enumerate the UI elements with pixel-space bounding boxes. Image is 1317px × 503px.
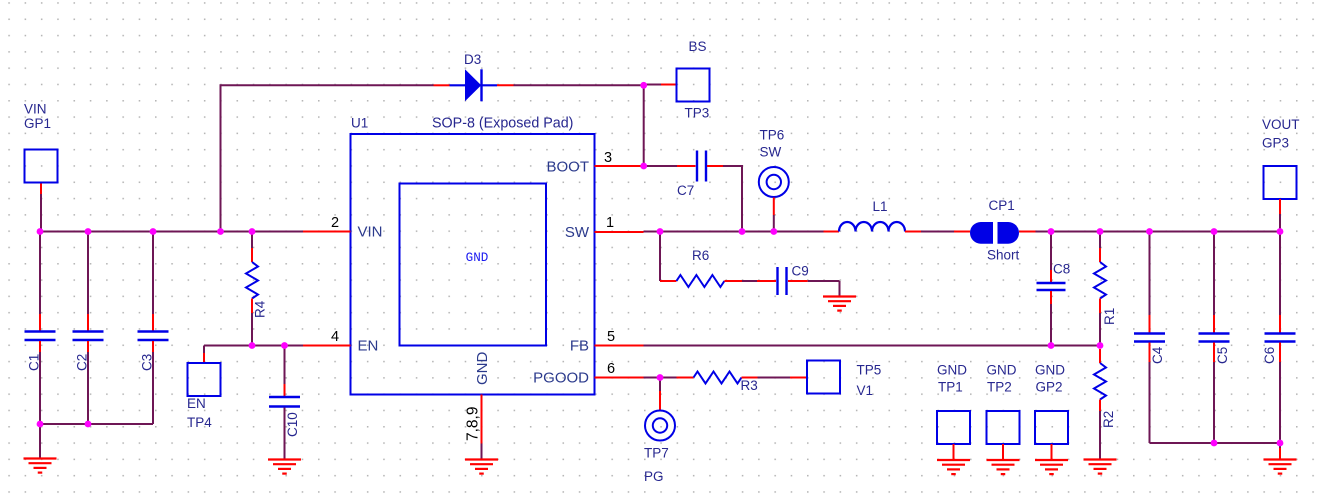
ground under GP2 — [1035, 460, 1068, 474]
svg-text:PG: PG — [644, 469, 664, 484]
diode D3 — [434, 84, 450, 86]
svg-text:C8: C8 — [1053, 262, 1070, 277]
op-amp U1 SOP-8 body — [351, 134, 595, 395]
svg-text:R4: R4 — [253, 300, 268, 318]
svg-text:GP1: GP1 — [24, 116, 51, 131]
svg-text:SOP-8 (Exposed Pad): SOP-8 (Exposed Pad) — [432, 116, 573, 132]
svg-text:VIN: VIN — [24, 102, 47, 117]
svg-text:L1: L1 — [873, 199, 888, 214]
wire L1 to CP1 — [921, 231, 954, 233]
svg-text:C5: C5 — [1215, 347, 1230, 364]
svg-text:6: 6 — [607, 361, 615, 377]
resistor R1 — [1099, 232, 1101, 249]
svg-text:TP7: TP7 — [644, 446, 669, 461]
svg-text:C1: C1 — [27, 354, 42, 371]
junction dots EN net — [249, 342, 256, 349]
svg-text:VIN: VIN — [358, 224, 383, 241]
wire to ground — [39, 424, 41, 459]
junction dots VIN bus — [37, 228, 44, 235]
junction dots SW net — [657, 228, 664, 235]
ground under TP2 — [987, 460, 1020, 474]
svg-text:GND: GND — [474, 352, 491, 386]
svg-text:C2: C2 — [75, 354, 90, 371]
U1 pin 5 FB — [595, 345, 644, 347]
wire VIN bus — [40, 231, 303, 233]
svg-text:4: 4 — [331, 329, 339, 345]
svg-text:V1: V1 — [857, 383, 874, 398]
svg-text:U1: U1 — [351, 116, 368, 131]
wire R3 to TP5 — [758, 377, 791, 379]
svg-text:2: 2 — [331, 215, 339, 231]
svg-text:C9: C9 — [792, 264, 809, 279]
testpoint TP5 — [790, 377, 807, 379]
svg-text:C6: C6 — [1262, 347, 1277, 364]
svg-text:TP2: TP2 — [987, 380, 1012, 395]
junction BOOT node — [640, 163, 647, 170]
wire C7 to SW — [741, 165, 743, 232]
svg-text:PGOOD: PGOOD — [533, 370, 589, 387]
svg-text:1: 1 — [606, 215, 614, 231]
U1 pin 6 PGOOD — [595, 377, 644, 379]
ground under R2 — [1084, 460, 1117, 474]
svg-text:GND: GND — [1035, 363, 1065, 378]
svg-text:BS: BS — [689, 39, 707, 54]
junction dots C1 C2 bottom — [37, 421, 44, 428]
svg-text:VOUT: VOUT — [1262, 117, 1300, 132]
svg-text:GP2: GP2 — [1036, 380, 1063, 395]
svg-text:C10: C10 — [285, 412, 300, 437]
svg-text:SW: SW — [565, 224, 590, 241]
wire PGOOD net — [644, 377, 677, 379]
ground under TP1 — [937, 460, 970, 474]
svg-text:BOOT: BOOT — [546, 159, 589, 176]
wire SW net — [644, 231, 824, 233]
svg-text:R6: R6 — [692, 248, 709, 263]
capacitor C8 — [1050, 232, 1052, 271]
svg-text:Short: Short — [987, 248, 1020, 263]
jumper CP1 — [954, 231, 970, 233]
capacitor C5 — [1213, 232, 1215, 316]
ground under U1 — [465, 460, 498, 474]
testpoint TP7 — [659, 378, 661, 392]
U1 exposed pad box — [400, 184, 547, 346]
wire FB net — [644, 345, 1101, 347]
svg-text:TP6: TP6 — [760, 128, 785, 143]
capacitor C10 — [284, 346, 286, 385]
capacitor C1 — [39, 232, 41, 315]
wire D3 to BS junction — [514, 84, 644, 86]
wire BS junction to TP3 — [644, 84, 661, 86]
junction dots FB net — [1048, 342, 1055, 349]
wire VOUT bus — [1036, 231, 1281, 233]
svg-text:CP1: CP1 — [989, 198, 1015, 213]
capacitor C9 — [757, 280, 776, 282]
wire top rail to D3 — [220, 84, 434, 86]
svg-text:R1: R1 — [1102, 308, 1117, 325]
svg-text:GND: GND — [466, 251, 489, 265]
svg-text:7,8,9: 7,8,9 — [465, 407, 482, 441]
ground under C6 — [1264, 460, 1297, 474]
svg-text:5: 5 — [607, 329, 615, 345]
capacitor C6 — [1279, 232, 1281, 316]
U1 GND pin 7,8,9 — [481, 395, 483, 444]
resistor R2 — [1099, 349, 1101, 363]
svg-text:EN: EN — [187, 396, 206, 411]
pin stub TP3 — [661, 84, 677, 86]
resistor R3 — [677, 377, 694, 379]
U1 pin 1 SW — [595, 231, 644, 233]
capacitor C2 — [87, 232, 89, 315]
U1 pin 2 VIN — [303, 231, 351, 233]
junction PGOOD node — [657, 374, 664, 381]
wire to ground — [1279, 443, 1281, 448]
svg-text:TP1: TP1 — [938, 380, 963, 395]
U1 pin 4 EN — [303, 345, 351, 347]
junction dots VOUT bus — [1048, 228, 1055, 235]
ground under C9 — [823, 297, 856, 311]
capacitor C4 — [1149, 232, 1151, 316]
svg-text:C3: C3 — [140, 354, 155, 371]
ground under C10 — [268, 460, 301, 474]
wire R6 to C9 — [742, 280, 757, 282]
wire C9 to ground — [808, 280, 840, 282]
wire C1-C2-C3 bottom — [40, 423, 153, 425]
wire output cap bottoms — [1150, 442, 1281, 444]
svg-text:GP3: GP3 — [1262, 136, 1289, 151]
resistor R4 — [251, 232, 253, 249]
wire BS junction down to BOOT — [643, 85, 645, 166]
svg-text:TP4: TP4 — [187, 415, 212, 430]
svg-text:SW: SW — [760, 145, 782, 160]
svg-text:FB: FB — [570, 338, 589, 355]
svg-text:GND: GND — [987, 363, 1017, 378]
svg-text:GND: GND — [937, 363, 967, 378]
svg-text:TP3: TP3 — [685, 106, 710, 121]
U1 pin 3 BOOT — [595, 165, 644, 167]
svg-text:EN: EN — [358, 338, 379, 355]
svg-text:R3: R3 — [741, 378, 758, 393]
junction BS node — [640, 82, 647, 89]
junction dots output bottoms — [1211, 440, 1218, 447]
svg-text:D3: D3 — [464, 52, 481, 67]
capacitor C7 — [644, 165, 677, 167]
resistor R6 — [659, 232, 661, 282]
wire riser to top rail — [220, 85, 222, 231]
svg-text:TP5: TP5 — [857, 363, 882, 378]
svg-text:C7: C7 — [677, 183, 694, 198]
wire EN net — [204, 345, 303, 347]
svg-text:R2: R2 — [1101, 411, 1116, 428]
inductor L1 — [824, 231, 840, 233]
ground under C1 — [24, 459, 57, 473]
svg-text:3: 3 — [604, 150, 612, 166]
capacitor C3 — [152, 232, 154, 315]
svg-text:C4: C4 — [1150, 346, 1165, 364]
testpoint TP4 — [203, 346, 205, 354]
